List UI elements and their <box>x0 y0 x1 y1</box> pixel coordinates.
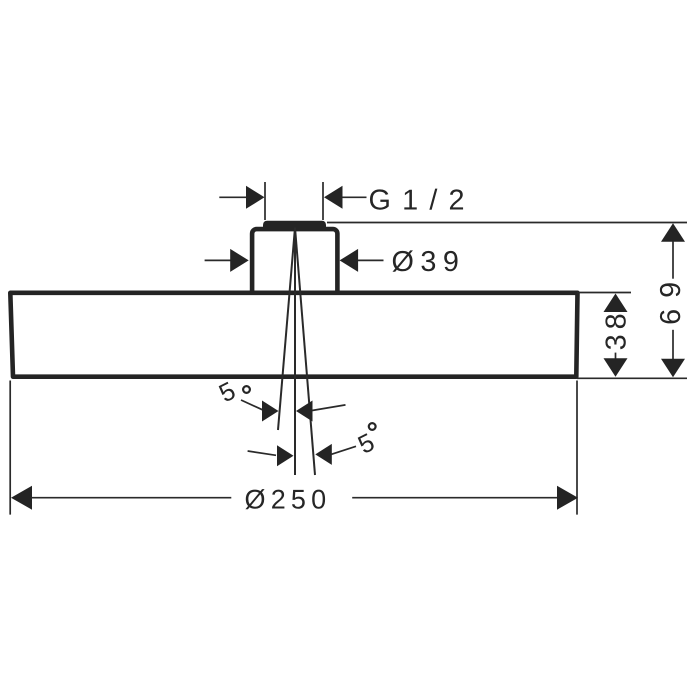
angle 5deg lower-right leaders and arrows <box>248 451 276 455</box>
svg-text:Ø39: Ø39 <box>392 246 466 278</box>
svg-text:38: 38 <box>601 308 633 350</box>
connector cap (threaded G1/2 stub) <box>263 221 326 230</box>
spray angle line left <box>278 228 295 431</box>
svg-text:G1/2: G1/2 <box>369 185 476 217</box>
angle 5deg upper-left degree sign <box>243 386 250 393</box>
angle 5deg upper-left arrows <box>262 401 279 422</box>
dimension O39 arrows and leaders <box>205 259 384 261</box>
angle 5deg upper-left leader <box>241 400 263 410</box>
dimension G1/2 extension lines <box>265 182 323 220</box>
connector body <box>252 229 337 299</box>
svg-text:Ø250: Ø250 <box>245 485 332 515</box>
spray angle line center <box>294 228 296 476</box>
dimension O250 extension lines <box>9 381 11 515</box>
angle 5deg lower-right degree sign <box>369 423 376 430</box>
dimension G1/2 arrows and leaders <box>219 196 366 198</box>
dimension 38/69 bottom extension line <box>577 377 687 379</box>
dimension 69 <box>661 223 685 242</box>
dimension 38 <box>577 292 631 294</box>
svg-text:69: 69 <box>655 271 687 325</box>
shower plate (disc side view) <box>10 293 577 377</box>
dimension O250 arrows and line <box>11 486 32 510</box>
dimension 69 top extension line <box>327 222 687 224</box>
spray angle line right <box>295 228 315 476</box>
